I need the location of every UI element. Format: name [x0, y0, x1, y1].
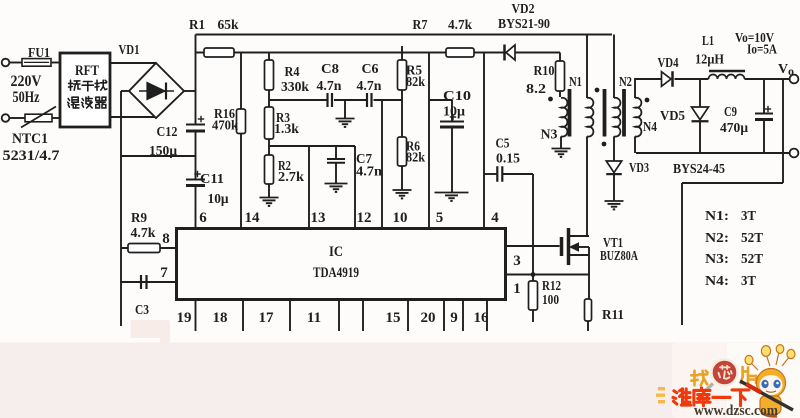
svg-text:13: 13 — [311, 210, 326, 226]
svg-text:www.dzsc.com: www.dzsc.com — [694, 403, 778, 418]
svg-text:5: 5 — [436, 210, 444, 226]
svg-text:4.7n: 4.7n — [357, 79, 382, 94]
svg-text:FU1: FU1 — [28, 46, 50, 61]
svg-text:IC: IC — [329, 244, 343, 260]
svg-text:BYS24-45: BYS24-45 — [673, 162, 725, 177]
svg-text:65k: 65k — [218, 18, 239, 33]
svg-text:15: 15 — [386, 310, 401, 326]
svg-text:52T: 52T — [741, 252, 764, 267]
svg-text:N4: N4 — [643, 120, 657, 135]
svg-text:C6: C6 — [362, 62, 379, 77]
svg-text:14: 14 — [245, 210, 261, 226]
svg-text:N3: N3 — [541, 128, 558, 143]
svg-text:N3:: N3: — [705, 252, 729, 267]
svg-text:20: 20 — [421, 310, 436, 326]
svg-text:1.3k: 1.3k — [274, 122, 299, 137]
svg-text:12μH: 12μH — [695, 53, 724, 68]
svg-text:VD1: VD1 — [119, 43, 140, 58]
svg-text:82k: 82k — [406, 151, 425, 166]
svg-text:330k: 330k — [281, 80, 309, 95]
svg-text:R9: R9 — [131, 211, 147, 226]
svg-text:BUZ80A: BUZ80A — [600, 249, 639, 264]
svg-text:C10: C10 — [443, 89, 471, 104]
svg-text:N2:: N2: — [705, 231, 729, 246]
svg-text:3T: 3T — [741, 209, 757, 224]
svg-text:5231/4.7: 5231/4.7 — [3, 148, 61, 164]
svg-text:R7: R7 — [413, 18, 428, 33]
svg-text:V: V — [778, 62, 788, 77]
svg-text:C5: C5 — [496, 137, 510, 152]
svg-text:10: 10 — [393, 210, 408, 226]
svg-text:3: 3 — [513, 253, 521, 269]
svg-text:10μ: 10μ — [443, 105, 465, 120]
svg-text:7: 7 — [160, 265, 168, 281]
svg-text:TDA4919: TDA4919 — [313, 265, 359, 281]
svg-text:16: 16 — [474, 310, 490, 326]
svg-text:N4:: N4: — [705, 274, 729, 289]
svg-text:150μ: 150μ — [149, 144, 177, 159]
svg-text:R10: R10 — [534, 64, 555, 79]
svg-text:9: 9 — [450, 310, 458, 326]
svg-text:6: 6 — [199, 210, 207, 226]
svg-text:470k: 470k — [212, 119, 238, 134]
svg-text:NTC1: NTC1 — [12, 131, 48, 147]
svg-text:4.7n: 4.7n — [356, 165, 382, 180]
svg-text:N2: N2 — [619, 75, 632, 90]
svg-text:R1: R1 — [189, 18, 205, 33]
svg-text:C11: C11 — [200, 172, 224, 187]
svg-text:8: 8 — [162, 231, 170, 247]
svg-text:52T: 52T — [741, 231, 764, 246]
svg-text:VD3: VD3 — [629, 161, 649, 176]
svg-text:R12: R12 — [542, 279, 561, 294]
svg-text:17: 17 — [259, 310, 275, 326]
svg-text:2.7k: 2.7k — [278, 170, 304, 185]
svg-text:4.7k: 4.7k — [448, 18, 472, 33]
svg-text:3T: 3T — [741, 274, 757, 289]
svg-text:19: 19 — [177, 310, 192, 326]
svg-text:82k: 82k — [406, 75, 425, 90]
svg-text:VD4: VD4 — [658, 56, 679, 71]
svg-text:0.15: 0.15 — [496, 152, 520, 167]
svg-text:R11: R11 — [602, 308, 624, 323]
svg-text:C8: C8 — [321, 62, 339, 77]
svg-text:18: 18 — [213, 310, 228, 326]
svg-text:Io=5A: Io=5A — [747, 43, 778, 58]
svg-text:100: 100 — [542, 293, 559, 308]
svg-text:o: o — [788, 64, 794, 78]
svg-text:10μ: 10μ — [208, 192, 229, 207]
svg-text:12: 12 — [357, 210, 372, 226]
svg-text:220V: 220V — [11, 73, 43, 90]
svg-text:470μ: 470μ — [720, 121, 748, 136]
svg-text:4: 4 — [491, 210, 499, 226]
svg-text:50Hz: 50Hz — [13, 89, 40, 106]
svg-text:C12: C12 — [157, 125, 178, 140]
svg-text:11: 11 — [307, 310, 321, 326]
svg-text:L1: L1 — [702, 34, 714, 49]
svg-text:VD2: VD2 — [512, 2, 535, 17]
svg-text:C9: C9 — [724, 105, 737, 120]
svg-text:N1: N1 — [569, 75, 582, 90]
svg-text:VD5: VD5 — [660, 109, 685, 124]
svg-text:8.2: 8.2 — [526, 82, 546, 97]
svg-text:N1:: N1: — [705, 209, 729, 224]
svg-text:1: 1 — [513, 281, 521, 297]
svg-text:C3: C3 — [135, 303, 149, 318]
svg-text:4.7n: 4.7n — [317, 79, 342, 94]
svg-text:BYS21-90: BYS21-90 — [498, 17, 550, 32]
svg-text:RFT: RFT — [75, 63, 99, 79]
svg-text:4.7k: 4.7k — [131, 226, 156, 241]
svg-text:R4: R4 — [285, 65, 300, 80]
